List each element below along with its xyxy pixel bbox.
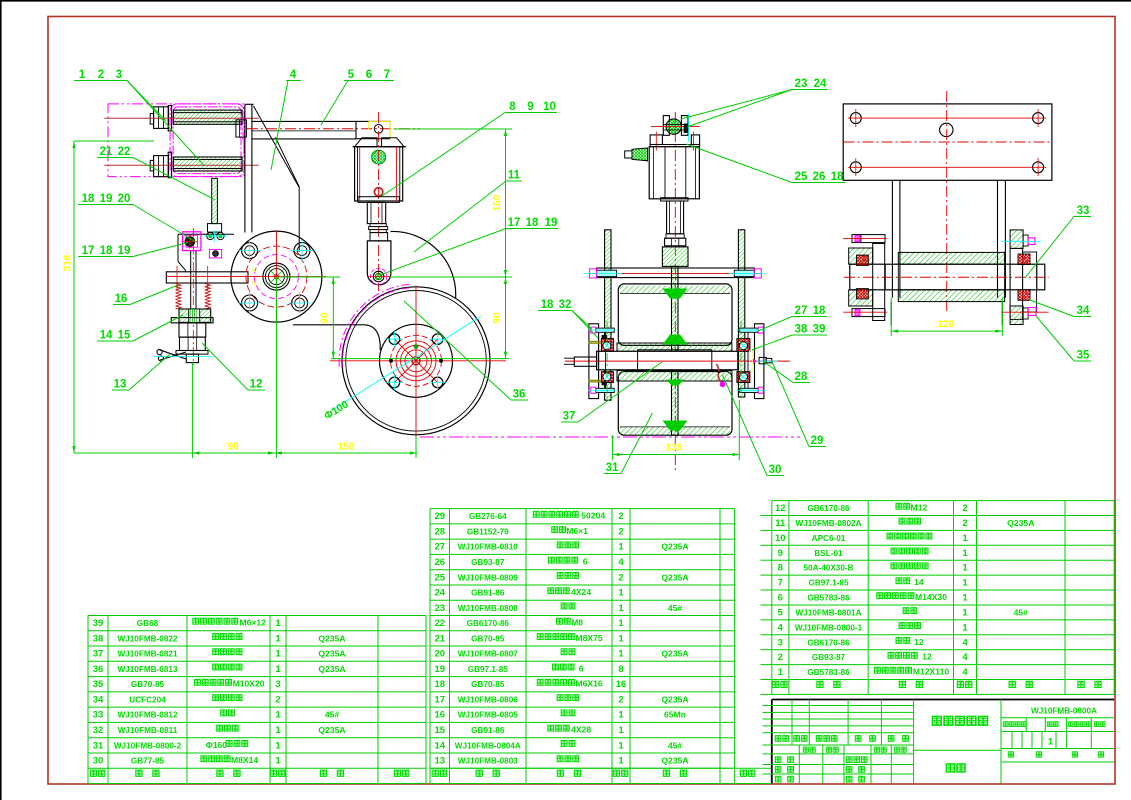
- svg-text:M12: M12: [911, 503, 928, 513]
- svg-text:GB93-87: GB93-87: [471, 558, 505, 567]
- axle sleeve: [638, 350, 712, 372]
- svg-text:38: 38: [795, 324, 808, 336]
- svg-text:90: 90: [227, 442, 239, 453]
- gasket yellow dashed: [749, 350, 751, 371]
- svg-text:GB91-86: GB91-86: [471, 726, 505, 735]
- bolt B1 washer: [168, 106, 171, 131]
- disc outer circles: [342, 287, 490, 435]
- svg-text:18: 18: [541, 299, 554, 311]
- svg-text:WJ10FMB-0809: WJ10FMB-0809: [458, 573, 519, 582]
- left seal blocks: [602, 335, 607, 338]
- svg-text:11: 11: [508, 170, 521, 182]
- svg-text:33: 33: [1077, 205, 1090, 217]
- svg-text:1: 1: [962, 593, 968, 604]
- svg-text:14: 14: [435, 740, 446, 751]
- svg-text:20: 20: [118, 193, 131, 205]
- svg-text:34: 34: [1077, 305, 1090, 317]
- piston rod: [367, 202, 385, 223]
- svg-text:2: 2: [275, 695, 280, 706]
- adjusting rod hatched: [212, 178, 218, 223]
- svg-text:1: 1: [962, 622, 968, 633]
- tie bar left bolt: [597, 270, 617, 276]
- svg-text:19: 19: [435, 664, 446, 675]
- svg-text:27: 27: [795, 305, 808, 317]
- leader to bracket: [133, 205, 196, 243]
- flange housing circle: [231, 231, 322, 322]
- svg-text:6: 6: [778, 593, 783, 604]
- center cylinder body: [649, 147, 699, 199]
- bolt B1 shaft: [173, 110, 242, 124]
- svg-text:31: 31: [93, 740, 104, 751]
- columns: [891, 180, 893, 297]
- svg-text:27: 27: [435, 542, 446, 553]
- svg-text:3: 3: [116, 69, 122, 81]
- bottom bracket verticals: [890, 302, 892, 325]
- svg-text:45#: 45#: [668, 603, 683, 613]
- svg-text:39: 39: [93, 618, 104, 629]
- clevis pin hatched: [666, 119, 681, 134]
- svg-text:37: 37: [93, 649, 104, 660]
- svg-text:23: 23: [435, 603, 446, 614]
- svg-text:16: 16: [616, 679, 627, 690]
- svg-text:15: 15: [118, 330, 131, 342]
- right bearing top bolt: [740, 328, 759, 332]
- svg-text:Q235A: Q235A: [318, 633, 345, 643]
- dim ext verticals bottom: [191, 363, 193, 458]
- plate center hole: [940, 123, 953, 136]
- svg-text:26: 26: [813, 171, 826, 183]
- cylinder centerline: [378, 112, 380, 291]
- hex nut upper: [179, 323, 206, 337]
- right bearing rollers upper: [737, 339, 750, 352]
- disc red circles: [391, 335, 442, 386]
- svg-text:17: 17: [435, 695, 446, 706]
- svg-text:GB68: GB68: [137, 619, 159, 628]
- svg-text:1: 1: [275, 725, 281, 736]
- right bearing rollers lower: [737, 372, 750, 383]
- right BOM table grid: [771, 501, 773, 695]
- dim ext right top: [394, 128, 512, 130]
- svg-text:22: 22: [435, 618, 446, 629]
- svg-text:6: 6: [583, 557, 588, 567]
- axle centerline: [565, 360, 790, 362]
- flange bolt circle red dashed: [246, 246, 307, 307]
- svg-text:12: 12: [775, 503, 786, 514]
- dim 316 vertical: [73, 141, 75, 453]
- title right small labels: [1003, 722, 1008, 727]
- svg-text:7: 7: [384, 69, 390, 81]
- leader gasket: [752, 335, 792, 350]
- svg-text:16: 16: [115, 293, 128, 305]
- svg-text:WJ10FMB-0800-2: WJ10FMB-0800-2: [114, 741, 182, 750]
- cylinder bottom cap: [661, 198, 688, 201]
- leader 33: [1025, 217, 1074, 279]
- disc bolts: [389, 334, 400, 345]
- svg-text:31: 31: [606, 462, 619, 474]
- arm bottom edge: [252, 138, 356, 140]
- svg-text:39: 39: [813, 324, 826, 336]
- leader disc rim: [404, 301, 511, 400]
- svg-text:1: 1: [79, 69, 86, 81]
- svg-text:14: 14: [914, 577, 924, 587]
- sv right hatched block bottom: [1010, 306, 1023, 325]
- svg-text:1: 1: [962, 548, 968, 559]
- volute outer arc: [391, 231, 456, 298]
- svg-text:GB70-85: GB70-85: [131, 680, 165, 689]
- svg-text:Φ160: Φ160: [206, 740, 228, 750]
- rod adjuster rings: [370, 224, 386, 227]
- title left col labels: [775, 757, 781, 763]
- svg-text:2: 2: [618, 511, 623, 522]
- svg-text:GB5783-86: GB5783-86: [807, 594, 850, 603]
- svg-text:50204: 50204: [581, 511, 605, 521]
- cylinder ears: [650, 135, 662, 145]
- leader pin: [687, 90, 792, 128]
- center BOM table grid: [429, 509, 431, 784]
- svg-text:21: 21: [435, 633, 446, 644]
- svg-text:23: 23: [795, 78, 808, 90]
- svg-text:32: 32: [93, 725, 104, 736]
- dim ext top: [74, 140, 154, 142]
- right bearing bottom bolt: [740, 388, 759, 392]
- tie bar centerline: [588, 272, 762, 274]
- svg-text:36: 36: [93, 664, 104, 675]
- bottom bracket lines: [890, 298, 892, 336]
- svg-text:1: 1: [962, 533, 968, 544]
- part type label: [946, 764, 954, 772]
- washer plate: [171, 318, 213, 323]
- side plate left hatched: [605, 230, 611, 400]
- svg-text:4: 4: [962, 667, 968, 678]
- svg-text:5: 5: [778, 608, 784, 619]
- small fitting below nuts: [209, 249, 221, 258]
- column centerline: [946, 91, 948, 313]
- sv left top bolt: [852, 235, 885, 243]
- svg-text:50A-40X30-B: 50A-40X30-B: [803, 564, 853, 573]
- svg-text:18: 18: [813, 305, 826, 317]
- axle side view: [850, 264, 1045, 290]
- svg-text:WJ10FMB-0821: WJ10FMB-0821: [117, 650, 178, 659]
- svg-text:WJ10FMB-0811: WJ10FMB-0811: [118, 726, 178, 735]
- svg-text:WJ10FMB-0800A: WJ10FMB-0800A: [1031, 707, 1097, 716]
- svg-text:GB91-86: GB91-86: [471, 589, 505, 598]
- flange hub rings: [263, 263, 290, 290]
- svg-text:WJ10FMB-0805: WJ10FMB-0805: [458, 711, 519, 720]
- svg-text:4X28: 4X28: [571, 725, 591, 735]
- svg-text:8: 8: [618, 664, 623, 675]
- arm left pivot nut: [236, 120, 247, 137]
- svg-text:1: 1: [275, 664, 281, 675]
- svg-text:17: 17: [508, 217, 521, 229]
- svg-text:21: 21: [100, 146, 113, 158]
- title row mark labels: [775, 736, 781, 742]
- svg-text:33: 33: [93, 710, 104, 721]
- svg-text:BSL-01: BSL-01: [814, 549, 843, 558]
- title block left grid: [913, 700, 915, 784]
- svg-text:2: 2: [618, 695, 623, 706]
- svg-text:24: 24: [435, 588, 446, 599]
- svg-text:2: 2: [962, 518, 967, 529]
- disc crosshair: [330, 360, 506, 362]
- svg-text:M10X20: M10X20: [233, 679, 265, 689]
- svg-text:1: 1: [618, 633, 624, 644]
- svg-text:M12X110: M12X110: [913, 667, 950, 677]
- svg-text:4: 4: [778, 622, 784, 633]
- leader oil pipe: [723, 375, 768, 476]
- svg-text:36: 36: [513, 389, 526, 401]
- svg-text:Q235A: Q235A: [661, 756, 688, 766]
- disc red diagonals: [395, 339, 438, 382]
- svg-text:25: 25: [795, 171, 808, 183]
- svg-text:M8X75: M8X75: [575, 633, 602, 643]
- pitch diameter cyan line: [331, 316, 481, 411]
- left bearing bottom bolt: [596, 388, 615, 392]
- svg-text:WJ10FMB-0804A: WJ10FMB-0804A: [455, 741, 521, 750]
- right bearing centerline: [740, 321, 742, 400]
- svg-text:12: 12: [250, 379, 263, 391]
- sv right plates: [1010, 248, 1023, 319]
- yellow tick marks: [253, 268, 256, 272]
- svg-text:Q235A: Q235A: [1007, 518, 1034, 528]
- svg-text:GB97.1-85: GB97.1-85: [808, 579, 848, 588]
- top plate: [843, 104, 1052, 180]
- left bearing rollers upper: [601, 339, 613, 352]
- pivot block magenta square: [183, 232, 201, 251]
- svg-text:Q235A: Q235A: [661, 695, 688, 705]
- tie bar: [597, 268, 755, 278]
- volute inner tangent: [293, 324, 365, 326]
- rod rings: [666, 234, 684, 238]
- right bearing housing: [755, 324, 764, 399]
- svg-text:18: 18: [435, 679, 446, 690]
- svg-text:GB1152-79: GB1152-79: [467, 528, 509, 537]
- svg-text:90: 90: [320, 312, 331, 324]
- svg-text:45#: 45#: [668, 740, 683, 750]
- svg-text:Q235A: Q235A: [661, 649, 688, 659]
- leader body: [271, 81, 288, 171]
- rod clevis: [367, 241, 391, 285]
- svg-text:M14X30: M14X30: [915, 592, 947, 602]
- leader 34: [1029, 300, 1074, 317]
- rod nut: [665, 238, 686, 246]
- cylinder cap wedges: [355, 138, 377, 147]
- svg-text:4: 4: [618, 557, 624, 568]
- svg-text:M8X14: M8X14: [231, 755, 258, 765]
- flange crosshair: [166, 276, 326, 278]
- svg-text:32: 32: [559, 299, 572, 311]
- leader to spring: [130, 285, 178, 305]
- svg-text:1: 1: [275, 710, 281, 721]
- svg-text:5: 5: [348, 69, 355, 81]
- title sign date labels: [803, 747, 808, 752]
- svg-text:18: 18: [82, 193, 95, 205]
- washer small: [176, 351, 208, 355]
- svg-text:135: 135: [666, 443, 683, 454]
- svg-text:12: 12: [922, 652, 932, 662]
- sv left flange plates: [873, 244, 885, 321]
- svg-text:WJ10FMB-0803: WJ10FMB-0803: [458, 757, 519, 766]
- svg-text:1: 1: [618, 710, 624, 721]
- leader volute: [414, 181, 506, 252]
- svg-text:WJ10FMB-0808: WJ10FMB-0808: [458, 604, 519, 613]
- svg-text:1: 1: [618, 725, 624, 736]
- flange bolts: [242, 243, 258, 259]
- right table row stubs: [761, 515, 772, 517]
- side plate right hatched: [738, 230, 744, 397]
- svg-text:9: 9: [527, 101, 533, 113]
- flange center mark: [274, 274, 278, 278]
- spring left: [176, 284, 182, 287]
- svg-text:UCFC204: UCFC204: [129, 696, 166, 705]
- air cylinder body: [355, 147, 403, 201]
- svg-text:WJ10FMB-0801A: WJ10FMB-0801A: [796, 609, 862, 618]
- outer black border top: [0, 0, 1131, 2]
- svg-text:22: 22: [118, 146, 131, 158]
- leader bearing top: [758, 317, 792, 332]
- cylinder bottom cap: [358, 197, 399, 203]
- dim ext disc center: [331, 358, 509, 360]
- bolt B1 centerline: [104, 117, 258, 119]
- cylinder bracket: [356, 121, 390, 138]
- cylinder port boss hatched: [372, 150, 386, 164]
- svg-text:6: 6: [366, 69, 372, 81]
- svg-text:Q235A: Q235A: [661, 572, 688, 582]
- svg-text:25: 25: [435, 572, 446, 583]
- clevis pin centerline: [651, 126, 700, 128]
- hex nut lower: [180, 337, 206, 350]
- svg-text:13: 13: [114, 379, 127, 391]
- svg-text:4X24: 4X24: [571, 587, 591, 597]
- svg-text:10: 10: [543, 101, 556, 113]
- svg-text:GB6170-86: GB6170-86: [807, 504, 850, 513]
- svg-text:18: 18: [100, 245, 113, 257]
- svg-text:1: 1: [618, 603, 624, 614]
- svg-text:WJ10FMB-0806: WJ10FMB-0806: [458, 696, 519, 705]
- connector block hatched: [662, 247, 688, 267]
- svg-text:WJ10FMB-0810: WJ10FMB-0810: [458, 543, 519, 552]
- svg-text:15: 15: [435, 725, 446, 736]
- left spacer olive: [589, 341, 602, 343]
- cotter pin centerline: [153, 356, 213, 358]
- svg-text:16: 16: [435, 710, 446, 721]
- svg-text:34: 34: [93, 695, 104, 706]
- svg-text:1: 1: [962, 563, 968, 574]
- svg-text:2: 2: [618, 572, 623, 583]
- center stud: [190, 251, 192, 309]
- dim ext clevis: [390, 276, 512, 278]
- plate corner holes: [850, 113, 861, 124]
- disc hub circle: [380, 324, 453, 397]
- plate red lines: [848, 117, 1046, 119]
- arm centerline: [247, 128, 420, 130]
- axle: [597, 351, 738, 370]
- svg-text:45#: 45#: [1014, 608, 1029, 618]
- svg-text:14: 14: [100, 330, 113, 342]
- svg-text:18: 18: [831, 171, 844, 183]
- svg-text:7: 7: [778, 578, 783, 589]
- dim 135: [612, 435, 614, 460]
- bracket yellow highlight: [369, 120, 390, 122]
- svg-text:26: 26: [435, 557, 446, 568]
- cross bar: [166, 272, 248, 283]
- right BOM header: [773, 681, 779, 687]
- dim 90 left vertical: [332, 277, 334, 359]
- svg-text:GB276-64: GB276-64: [469, 512, 507, 521]
- piston rod center view: [667, 201, 684, 234]
- svg-text:M6×1: M6×1: [566, 526, 588, 536]
- svg-text:M8: M8: [571, 618, 583, 628]
- leader ear: [686, 144, 792, 183]
- pin retainer dark: [684, 124, 688, 133]
- center BOM header: [432, 770, 438, 776]
- leader cylinder: [382, 113, 505, 197]
- svg-text:37: 37: [563, 411, 576, 423]
- svg-text:GB70-85: GB70-85: [471, 634, 505, 643]
- body chamfer edges: [254, 106, 299, 187]
- svg-text:19: 19: [545, 217, 558, 229]
- rod lower fitting: [208, 224, 222, 233]
- stem end: [186, 354, 198, 363]
- svg-text:150: 150: [338, 442, 355, 453]
- svg-text:1: 1: [618, 588, 624, 599]
- assembly name cell: [914, 749, 1001, 751]
- svg-text:4: 4: [290, 69, 297, 81]
- phantom line horizontal: [420, 436, 800, 438]
- svg-text:GB6170-86: GB6170-86: [807, 638, 850, 647]
- plate mid centerline: [844, 141, 1052, 143]
- vertical plate: [244, 104, 246, 232]
- svg-text:30: 30: [93, 756, 104, 767]
- leader 35: [1036, 316, 1074, 361]
- title block outline: [772, 699, 1114, 701]
- title block stubs: [763, 705, 772, 707]
- svg-text:12: 12: [914, 637, 924, 647]
- svg-text:1: 1: [962, 608, 968, 619]
- clevis pin hole: [373, 271, 384, 282]
- sv left housing hatched: [849, 248, 873, 264]
- bolt B2 shaft: [173, 157, 242, 171]
- svg-text:3: 3: [275, 679, 280, 690]
- svg-text:8: 8: [509, 101, 516, 113]
- dim ext flange center: [278, 276, 340, 278]
- svg-text:M6×12: M6×12: [239, 618, 266, 628]
- bolt B1 hex head: [154, 107, 169, 129]
- svg-text:WJ10FMB-0813: WJ10FMB-0813: [117, 665, 178, 674]
- U-bracket body magenta: [170, 104, 244, 177]
- svg-text:1: 1: [275, 740, 281, 751]
- svg-text:10: 10: [775, 533, 786, 544]
- svg-text:GB5783-86: GB5783-86: [807, 668, 850, 677]
- svg-text:120: 120: [938, 319, 955, 330]
- svg-text:WJ10FMB-0800-1: WJ10FMB-0800-1: [795, 623, 863, 632]
- svg-text:316: 316: [63, 254, 74, 271]
- dim 150/90 right vertical: [505, 129, 507, 359]
- leader to nut: [133, 315, 183, 341]
- leader to stem: [202, 343, 248, 390]
- svg-text:1: 1: [618, 740, 624, 751]
- svg-text:30: 30: [769, 464, 782, 476]
- svg-text:6: 6: [579, 663, 584, 673]
- hub band upper hatched: [617, 343, 732, 351]
- bolt B2 centerline: [104, 164, 258, 166]
- spring right: [205, 284, 211, 287]
- flange magenta pitch circle: [254, 255, 298, 299]
- svg-text:Q235A: Q235A: [318, 664, 345, 674]
- svg-text:8: 8: [778, 563, 783, 574]
- svg-text:1: 1: [275, 756, 281, 767]
- dim bottom line: [74, 452, 417, 454]
- clevis posts: [663, 116, 669, 136]
